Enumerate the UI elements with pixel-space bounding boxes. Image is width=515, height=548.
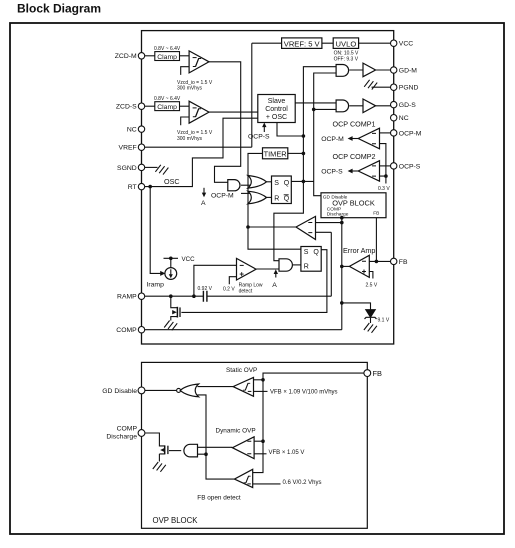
svg-text:RAMP: RAMP xyxy=(117,294,137,301)
svg-text:NC: NC xyxy=(399,115,409,122)
wire PGND xyxy=(372,86,391,88)
svg-text:R: R xyxy=(304,263,309,270)
NOR gate G7 mirrored xyxy=(177,384,199,397)
svg-text:Discharge: Discharge xyxy=(106,434,137,441)
svg-text:OCP COMP2: OCP COMP2 xyxy=(333,152,376,161)
GD-M and gate G4 xyxy=(336,65,349,77)
zener diode D1 9.1V xyxy=(365,310,390,324)
wire PWM comparator bottom input RAMP xyxy=(316,232,332,296)
wire ramp low detect input branch xyxy=(194,265,237,296)
wire ZCD-M comparator output xyxy=(209,62,241,183)
svg-text:+ OSC: + OSC xyxy=(266,114,287,121)
wire OR2 input stub xyxy=(241,192,250,194)
svg-text:Iramp: Iramp xyxy=(147,281,165,288)
wire COMP pin line xyxy=(145,329,342,331)
svg-text:Clamp: Clamp xyxy=(157,104,177,111)
slave control OSC box xyxy=(258,95,295,123)
svg-text:0.2 V: 0.2 V xyxy=(223,286,235,292)
svg-text:Error Amp: Error Amp xyxy=(343,246,375,255)
FB open detect comparator U8 xyxy=(197,469,321,501)
wire COMP net vertical xyxy=(341,218,343,330)
ZCD-S comparator U2 xyxy=(181,101,209,125)
wire VREF pin xyxy=(142,146,252,148)
OR gate G3 reset xyxy=(248,191,267,204)
svg-text:300 mVhys: 300 mVhys xyxy=(177,86,203,92)
PWM comparator U3 xyxy=(296,216,316,239)
capacitor 0.92V plates xyxy=(203,291,207,302)
wire error amp output xyxy=(342,265,350,267)
wire COMP discharge pin to mosfet xyxy=(145,433,165,462)
wire FB pin to comparators xyxy=(253,373,364,473)
OCP COMP2 xyxy=(321,152,379,181)
svg-text:OCP-M: OCP-M xyxy=(399,130,422,137)
dynamic OVP comparator U7 xyxy=(216,427,305,458)
svg-text:A: A xyxy=(201,200,206,207)
wire 2.5V stub xyxy=(369,272,373,279)
svg-text:GD Disable: GD Disable xyxy=(102,388,137,395)
svg-text:Q: Q xyxy=(284,180,290,187)
svg-text:Control: Control xyxy=(265,106,288,113)
svg-text:FB: FB xyxy=(373,369,383,378)
wire AND2 out to mosfet gate xyxy=(169,450,181,452)
wire ZCD-S comparator output to slave block xyxy=(209,111,258,113)
error amp U4 xyxy=(343,246,378,288)
wire GD-S and to buffer to pin xyxy=(349,105,390,107)
svg-text:Slave: Slave xyxy=(268,98,286,105)
wire 0.3V reference net xyxy=(380,144,386,184)
VCC tick for Iramp xyxy=(164,256,196,268)
flip-flop FF2 xyxy=(301,247,321,272)
svg-text:Q: Q xyxy=(284,196,290,203)
wire 0.2V stub xyxy=(229,277,236,285)
svg-text:detect: detect xyxy=(239,288,253,294)
ramp low detect comparator U5 xyxy=(223,258,263,294)
wire gd disable branch to GD-S gate xyxy=(314,108,336,110)
OCP-S arrow into slave xyxy=(248,123,270,141)
svg-text:Clamp: Clamp xyxy=(157,54,177,61)
svg-text:S: S xyxy=(274,180,279,187)
SGND ground symbol xyxy=(142,165,169,175)
wire clamp2 to comparator xyxy=(180,105,190,107)
svg-text:Dynamic OVP: Dynamic OVP xyxy=(216,427,256,434)
wire Q net vertical xyxy=(274,67,336,261)
svg-text:ZCD-S: ZCD-S xyxy=(116,104,137,111)
svg-text:OVP BLOCK: OVP BLOCK xyxy=(332,198,375,207)
node A arrow down at OCP-M gate xyxy=(201,188,206,207)
PGND ground symbol xyxy=(364,80,377,90)
ground under zener xyxy=(364,323,377,333)
svg-text:VCC: VCC xyxy=(399,41,413,48)
mosfet M1 ramp discharge xyxy=(171,296,180,320)
svg-text:FB: FB xyxy=(373,210,379,216)
svg-text:COMP: COMP xyxy=(117,425,138,432)
svg-text:RT: RT xyxy=(128,184,137,191)
svg-text:OCP-S: OCP-S xyxy=(399,163,421,170)
wire VREF net vertical xyxy=(251,43,253,147)
wire dynamic threshold input xyxy=(254,453,266,455)
wire RT to Iramp source xyxy=(150,187,160,274)
wire ZCD-M pin to clamp xyxy=(145,55,155,57)
wire FB to OVP block xyxy=(375,218,377,262)
wire OCP comp1 input from pin xyxy=(380,132,391,134)
svg-text:VFB × 1.09 V/100 mVhys: VFB × 1.09 V/100 mVhys xyxy=(270,390,338,396)
wire FB open detect to NOR and AND xyxy=(198,395,235,479)
Iramp current source I1 xyxy=(147,268,177,289)
wire OR2 to FF1 R xyxy=(267,196,272,198)
svg-text:OCP-S: OCP-S xyxy=(248,134,270,141)
svg-text:Q: Q xyxy=(313,249,319,256)
svg-text:PGND: PGND xyxy=(399,85,419,92)
clamp box 1 xyxy=(154,46,181,61)
bottom block pins xyxy=(138,370,371,437)
wire TIMER output xyxy=(288,152,304,154)
wire dynamic out to AND xyxy=(198,446,233,448)
svg-text:OCP COMP1: OCP COMP1 xyxy=(333,120,376,129)
wire GD Disable pin to NOR xyxy=(145,389,177,391)
junction dots bottom block xyxy=(204,378,265,456)
svg-text:COMP: COMP xyxy=(327,206,341,212)
svg-text:0.92 V: 0.92 V xyxy=(198,286,213,292)
svg-text:S: S xyxy=(304,249,309,256)
wire OR1 to FF1 S xyxy=(267,181,272,183)
ground under mosfet M2 xyxy=(153,462,166,472)
svg-text:COMP: COMP xyxy=(116,327,137,334)
wire GD-M and to buffer to pin xyxy=(349,69,390,71)
flip-flop FF1 xyxy=(272,176,292,204)
AND gate G6 xyxy=(279,259,292,271)
VREF 5V box U_VREF xyxy=(282,38,322,49)
wire FF2 Q to mosfet gate xyxy=(181,250,327,313)
wire ZCD-S pin to clamp xyxy=(145,105,155,107)
GD-S buffer B2 xyxy=(363,99,376,113)
svg-text:OVP BLOCK: OVP BLOCK xyxy=(153,516,199,525)
wire static top input xyxy=(254,379,264,381)
OCP COMP1 xyxy=(321,120,379,149)
svg-text:VREF: 5 V: VREF: 5 V xyxy=(284,39,321,48)
svg-text:TIMER: TIMER xyxy=(264,150,287,159)
OVP detail box xyxy=(142,362,368,528)
wire FF1 Q output xyxy=(291,180,313,182)
wire ramp low output to AND2 xyxy=(256,268,279,270)
svg-text:Discharge: Discharge xyxy=(327,212,349,218)
svg-text:GD-S: GD-S xyxy=(399,102,416,109)
wire fb open threshold xyxy=(253,483,281,485)
svg-text:2.5 V: 2.5 V xyxy=(366,282,378,288)
ground under mosfet M1 xyxy=(164,321,177,331)
clamp box 2 xyxy=(154,96,181,111)
wire dynamic top input xyxy=(254,440,263,442)
left pin labels xyxy=(115,53,137,334)
svg-text:OCP-M: OCP-M xyxy=(321,136,344,143)
wire gd disable net xyxy=(314,73,336,196)
svg-text:0.6 V/0.2 Vhys: 0.6 V/0.2 Vhys xyxy=(283,480,322,486)
GD-M buffer B1 xyxy=(363,63,376,77)
svg-text:GD-M: GD-M xyxy=(399,67,417,74)
wire static threshold input xyxy=(254,390,268,392)
OVP block box xyxy=(321,193,386,218)
wire TIMER input from SR path xyxy=(248,153,301,249)
svg-text:VREF: VREF xyxy=(119,145,137,152)
wire PWM comparator top input COMP xyxy=(316,222,342,224)
svg-text:0.3 V: 0.3 V xyxy=(378,186,390,192)
node A arrow up at G6 xyxy=(272,269,278,289)
wire clamp1 to comparator xyxy=(180,55,190,57)
svg-text:A: A xyxy=(272,282,277,289)
GD-S and gate G5 xyxy=(336,100,349,112)
svg-text:NC: NC xyxy=(127,127,137,134)
OR gate G2 set xyxy=(248,176,267,189)
static OVP comparator U6 xyxy=(226,367,338,396)
svg-text:OFF: 9.3 V: OFF: 9.3 V xyxy=(334,56,359,62)
svg-text:Block Diagram: Block Diagram xyxy=(17,1,101,15)
wire slave output to GD-S and gate xyxy=(295,102,336,104)
svg-text:FB: FB xyxy=(399,259,408,266)
wire AND2 to FF2 R xyxy=(293,264,301,266)
right pins of main block xyxy=(391,40,397,265)
svg-text:UVLO: UVLO xyxy=(336,39,357,48)
main IC block outline xyxy=(142,31,394,344)
wire FB pin to error amp xyxy=(369,260,390,262)
svg-text:SGND: SGND xyxy=(117,165,137,172)
right pin labels xyxy=(399,41,422,266)
TIMER box xyxy=(263,148,288,159)
svg-text:9.1 V: 9.1 V xyxy=(378,317,390,323)
svg-text:ZCD-M: ZCD-M xyxy=(115,53,137,60)
OCP-M and gate G1 xyxy=(211,180,240,200)
svg-text:R: R xyxy=(274,196,279,203)
svg-text:VCC: VCC xyxy=(182,256,196,263)
ZCD-M comparator U1 xyxy=(181,51,209,75)
wire OCP comp2 input from pin xyxy=(380,165,391,167)
AND gate G8 mirrored xyxy=(184,444,198,457)
wire OCP-M and gate to OR1 xyxy=(241,184,251,186)
wire zener branch xyxy=(342,303,371,323)
wire RAMP line xyxy=(145,295,332,297)
svg-text:VFB × 1.05 V: VFB × 1.05 V xyxy=(269,450,305,456)
svg-text:FB open detect: FB open detect xyxy=(197,495,241,502)
left pins of main block xyxy=(138,53,144,333)
wire static OVP out to NOR xyxy=(198,386,234,388)
wire PWM comparator output xyxy=(248,226,296,228)
wire VCC to UVLO to VREF5V xyxy=(252,42,391,44)
svg-text:OCP-S: OCP-S xyxy=(321,169,343,176)
svg-text:Static OVP: Static OVP xyxy=(226,367,257,374)
svg-text:OSC: OSC xyxy=(164,177,180,186)
svg-text:OCP-M: OCP-M xyxy=(211,193,234,200)
wire RT OSC to slave block xyxy=(145,118,258,186)
junction dots main block xyxy=(148,108,387,305)
svg-text:300 mVhys: 300 mVhys xyxy=(177,136,203,142)
mosfet M2 comp discharge xyxy=(165,445,168,454)
wire slave bottom to Q net xyxy=(277,123,303,137)
UVLO box xyxy=(333,38,359,63)
